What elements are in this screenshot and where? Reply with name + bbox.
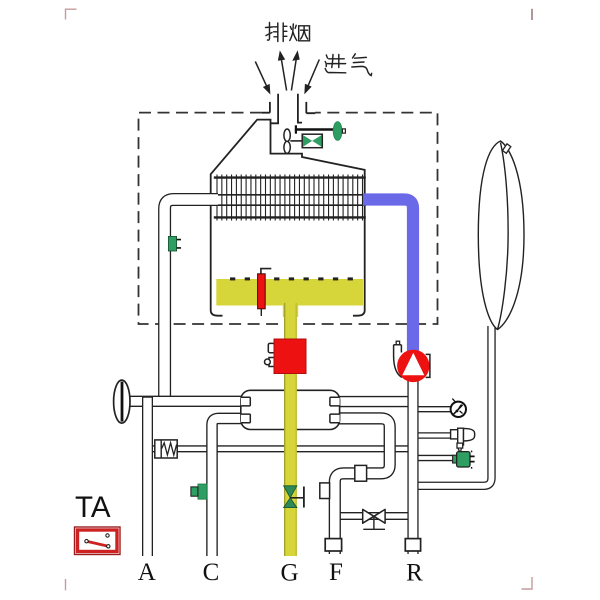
svg-text:F: F <box>329 559 343 586</box>
svg-text:C: C <box>203 559 220 586</box>
svg-text:R: R <box>406 560 423 587</box>
svg-text:TA: TA <box>75 491 111 524</box>
svg-text:A: A <box>138 559 156 586</box>
svg-text:G: G <box>280 560 298 587</box>
